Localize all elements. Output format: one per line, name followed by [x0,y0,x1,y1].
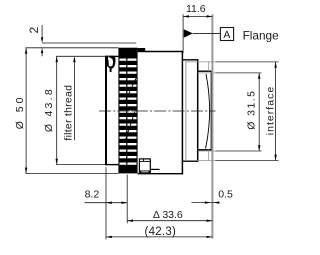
extension line top (2 dim upper ref) [42,42,136,44]
svg-text:Flange: Flange [243,29,280,43]
rear barrel bottom [198,149,212,151]
svg-text:filter thread: filter thread [63,85,75,141]
dimension 33.6 [127,209,212,222]
svg-text:Ø 50: Ø 50 [14,95,26,130]
filter thread leader/underline [73,56,75,140]
body top edge [145,51,183,53]
label phi50 [14,95,26,130]
svg-text:Ø 43.8: Ø 43.8 [43,87,55,132]
svg-text:(42.3): (42.3) [145,226,177,238]
extension line front face bottom [105,167,107,239]
svg-text:Δ33.6: Δ33.6 [153,209,183,221]
svg-text:2: 2 [27,26,41,33]
front barrel left edge [105,56,107,165]
dimension phi50 line [25,48,27,174]
knurl diagonal mark 2 [125,107,136,142]
extension line phi50 top [25,47,118,49]
datum triangle [184,29,221,37]
body rear face [181,51,183,175]
svg-text:Ø 31.5: Ø 31.5 [246,90,258,130]
centerline [99,110,216,112]
image plane line [211,14,213,238]
svg-text:A: A [223,29,230,41]
body bottom step line [150,168,159,170]
extension line phi50 bottom [25,172,118,174]
dimension interface [274,62,276,161]
dimension 8.2 [85,188,128,204]
dimension 42.3 [106,226,212,238]
rear flange section top [182,59,197,61]
knurled focus ring [118,48,137,174]
body front lip [138,48,146,52]
svg-text:8.2: 8.2 [85,188,100,200]
rear thread line bottom / phi31.5 extension [198,150,262,152]
front barrel bottom edge [105,164,118,166]
rear thread end vertical top [208,62,210,71]
front barrel top edge [105,55,118,57]
dimension phi31.5 [258,73,260,151]
interface thread line bottom / extension [186,160,279,162]
svg-text:11.6: 11.6 [186,3,206,15]
flange thread line vertical [185,60,187,161]
rear lens element arc [206,74,210,149]
front retainer hook detail [107,56,116,72]
datum box A [220,28,233,41]
extension line phi43.8 top [56,55,105,57]
dimension 2 upper leader [41,25,43,43]
body bottom edge [138,173,184,175]
rear thread end vertical bottom [208,150,210,161]
dimension 2 lower leader [41,48,43,57]
label 2 [27,26,41,33]
clamp screw [139,159,151,174]
dimension phi43.8 line [56,56,58,164]
rear flange section bottom [182,160,197,162]
interface thread line top / extension [186,61,279,63]
dimension 11.6 [183,3,212,17]
rear flange section right edge [197,59,199,162]
extension line phi43.8 bottom [56,164,105,166]
rear barrel top [198,70,212,72]
svg-text:interface: interface [265,86,277,135]
rear barrel right edge [210,71,212,151]
dimension 0.5 [191,189,233,204]
dimension 11.6 extension left [182,14,184,53]
label filter thread [63,85,75,141]
rear thread line top / phi31.5 extension [198,72,262,74]
label phi43.8 [43,87,55,132]
label phi31.5 [246,90,258,130]
svg-text:0.5: 0.5 [218,189,233,201]
knurl diagonal mark 1 [124,77,136,104]
extension line knurl feature bottom [126,175,128,224]
label interface [265,86,277,135]
label Flange [243,29,280,43]
